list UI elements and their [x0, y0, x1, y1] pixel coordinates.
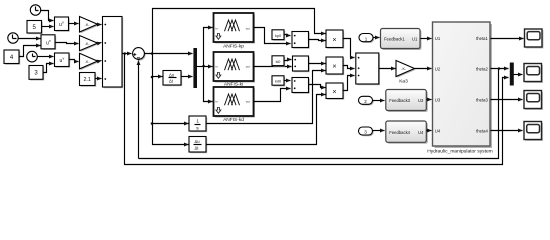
wire inport1 to Feedback1	[373, 37, 380, 39]
svg-text:Feedback1: Feedback1	[384, 37, 405, 42]
inport 1	[359, 34, 374, 43]
product3	[326, 83, 344, 100]
svg-text:theta2: theta2	[476, 66, 488, 71]
subsystem Feedback3	[386, 90, 428, 113]
gain1 -K-	[80, 17, 99, 34]
gain3 -K-	[80, 53, 99, 70]
add block (tall)	[103, 17, 124, 89]
wire theta2 feedback down-left-up to sum	[139, 69, 499, 159]
svg-text:v: v	[62, 21, 64, 25]
svg-text:1: 1	[196, 119, 199, 125]
node e du/dt tap	[151, 76, 154, 79]
svg-text:U3: U3	[418, 98, 424, 103]
svg-text:ki0: ki0	[276, 60, 281, 64]
svg-text:ANFIS-kd: ANFIS-kd	[223, 117, 244, 123]
node e integrator tap	[151, 122, 154, 125]
derivative du/dt 2	[189, 137, 207, 154]
wire mux2 to scope2	[514, 74, 523, 76]
svg-text:1: 1	[365, 36, 368, 41]
wire sum out to mux1	[145, 53, 193, 55]
svg-text:-K-: -K-	[85, 23, 91, 27]
node anfis feed	[202, 65, 205, 68]
node branch ref	[124, 52, 127, 55]
product1	[326, 30, 344, 49]
svg-text:Feedback3: Feedback3	[389, 98, 410, 103]
node e main	[151, 52, 154, 55]
wire gain1 to sumbox	[98, 24, 102, 26]
wire product2 to add4	[343, 66, 355, 69]
ANFIS-kp subsystem	[214, 13, 256, 50]
wire 5 to u^v1	[42, 26, 54, 28]
svg-text:theta1: theta1	[476, 36, 488, 41]
svg-text:v: v	[63, 57, 65, 61]
wire Feedback1 to U1	[421, 38, 432, 40]
svg-text:U1: U1	[412, 37, 418, 42]
wire Clock3 to u^v3	[38, 56, 54, 58]
wire du/dt2 to product3	[207, 95, 326, 145]
svg-text:Hydraulic_manipulator system: Hydraulic_manipulator system	[427, 148, 493, 154]
svg-text:Feedback4: Feedback4	[389, 130, 410, 135]
wire u^v3 to gain3	[69, 60, 79, 62]
product2	[326, 57, 344, 75]
wire Feedback4 to U4	[427, 130, 432, 132]
svg-text:×: ×	[332, 87, 336, 96]
subsystem Feedback4	[386, 121, 428, 144]
wire 3 to u^v3	[43, 64, 54, 73]
svg-text:Ka3: Ka3	[399, 79, 408, 85]
svg-text:U4: U4	[435, 128, 441, 133]
constant 4	[4, 50, 20, 65]
mux Mux2	[510, 63, 514, 86]
ANFIS-ki subsystem	[214, 52, 256, 87]
wire to ANFIS3	[204, 67, 213, 102]
svg-text:-K-: -K-	[85, 42, 91, 46]
wire theta4 to scope4	[491, 130, 523, 132]
clock Clock3	[27, 51, 38, 62]
wire kd0 to add3	[285, 80, 291, 82]
wire u^v1 to gain1	[69, 23, 79, 25]
wire add1 to product1	[309, 40, 326, 41]
math power u^v 1	[55, 17, 70, 32]
scope Scope1	[525, 29, 544, 48]
wire Feedback3 to U3	[427, 99, 432, 101]
add block Add3	[292, 78, 310, 94]
wire product3 to add4	[343, 76, 355, 91]
constant kp0	[272, 30, 285, 41]
svg-text:out: out	[246, 26, 250, 30]
wire gain2 to sumbox	[98, 43, 102, 44]
subsystem Feedback1	[381, 29, 422, 51]
wire e to du/dt1	[153, 76, 163, 78]
wire gain3 to sumbox	[98, 61, 102, 62]
scope Scope4	[524, 122, 543, 141]
wire add2 to product2	[309, 63, 326, 65]
svg-text:ANFIS-kp: ANFIS-kp	[223, 44, 244, 50]
subsystem Hydraulic manipulator	[427, 22, 493, 154]
scope Scope2	[524, 64, 543, 83]
wire 4 to u^v2	[19, 46, 41, 57]
constant 2.1	[80, 73, 97, 87]
mux Mux1	[193, 48, 197, 88]
svg-text:kp0: kp0	[275, 34, 281, 38]
wire ANFIS-ki out to add2	[254, 66, 292, 68]
svg-text:Δu: Δu	[169, 73, 175, 78]
constant 5	[27, 21, 43, 35]
wire u^v2 to gain2	[55, 43, 79, 44]
wire theta3 to scope3	[491, 99, 523, 101]
svg-text:×: ×	[332, 35, 336, 44]
svg-text:v: v	[49, 39, 51, 43]
svg-text:3: 3	[364, 130, 367, 135]
wire integrator to product2	[207, 71, 326, 124]
wire du/dt1 to mux1	[181, 76, 193, 78]
constant ki0	[272, 56, 285, 67]
wire Clock1 to u^v1	[41, 11, 54, 21]
add block Add2	[293, 56, 310, 72]
constant kd0	[272, 76, 285, 87]
wire e vertical	[153, 9, 326, 54]
wire inport2 to Feedback3	[373, 100, 385, 102]
svg-text:U3: U3	[435, 97, 441, 102]
svg-text:Δu: Δu	[195, 139, 201, 144]
wire mux1 out to ANFIS2	[197, 66, 213, 68]
gain Ka3	[396, 61, 416, 85]
wire kp0 to add1	[285, 35, 291, 36]
svg-text:×: ×	[332, 62, 336, 71]
math power u^v 3	[55, 53, 71, 68]
ANFIS-kd subsystem	[214, 87, 256, 123]
wire 2.1 to sumbox	[95, 78, 102, 80]
wire e down	[153, 54, 189, 145]
svg-text:U2: U2	[435, 66, 441, 71]
wire theta2 to mux2	[491, 68, 509, 70]
svg-text:out: out	[246, 65, 250, 69]
math power u^v 2	[41, 35, 56, 50]
wire sumbox to sum circle	[123, 53, 132, 55]
wire theta1 to scope1	[491, 38, 524, 40]
svg-text:out: out	[246, 100, 250, 104]
wire feedback into sum bottom	[138, 61, 140, 159]
add block Add1	[292, 32, 310, 49]
sum circle	[133, 48, 146, 61]
svg-text:2: 2	[364, 99, 367, 104]
clock Clock1	[30, 5, 40, 15]
wire add3 to product3	[309, 85, 326, 88]
scope Scope3	[524, 91, 543, 110]
svg-text:kd0: kd0	[275, 80, 281, 84]
inport 2	[359, 96, 374, 105]
wire Ka3 to U2	[415, 68, 432, 70]
svg-text:-K-: -K-	[85, 60, 91, 64]
svg-text:U1: U1	[435, 36, 441, 41]
add block Add4	[356, 53, 380, 85]
gain2 -K-	[80, 36, 99, 52]
constant 3	[29, 66, 44, 81]
inport 3	[359, 127, 374, 136]
svg-text:theta4: theta4	[476, 128, 488, 133]
node theta2 feedback	[498, 67, 501, 70]
wire ANFIS-kd out to add3	[254, 89, 291, 102]
wire add4 to gain Ka3	[379, 68, 396, 70]
svg-text:-K-: -K-	[401, 67, 407, 71]
wire e to integrator	[153, 123, 189, 125]
wire ki0 to add2	[285, 60, 292, 61]
derivative du/dt 1	[163, 71, 182, 87]
wire Clock2 to u^v2	[19, 38, 41, 40]
integrator 1/s	[189, 116, 207, 132]
clock Clock2	[8, 33, 18, 43]
svg-text:theta3: theta3	[476, 97, 488, 102]
wire inport3 to Feedback4	[373, 130, 385, 132]
wire product1 to add4	[343, 39, 355, 58]
svg-text:2.1: 2.1	[83, 77, 91, 83]
wire ANFIS-kp out to add1	[254, 28, 291, 44]
wire ref feedback	[125, 54, 509, 165]
wire to ANFIS1	[204, 28, 213, 67]
svg-text:U4: U4	[418, 130, 424, 135]
